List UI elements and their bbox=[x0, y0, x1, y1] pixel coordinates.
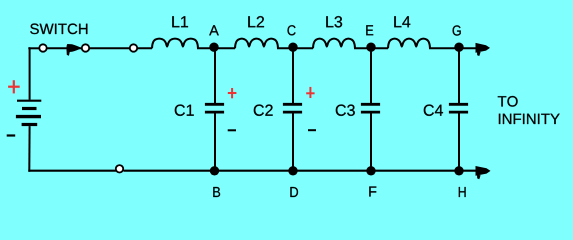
label L2 bbox=[248, 16, 264, 27]
inductor L4 bbox=[388, 39, 430, 49]
node G dot bbox=[454, 43, 463, 52]
capacitor C1 top plate bbox=[205, 103, 224, 106]
node D dot bbox=[288, 166, 297, 175]
node H dot bbox=[454, 166, 463, 175]
capacitor C1 bottom plate bbox=[205, 111, 224, 114]
node D label bbox=[290, 187, 298, 197]
switch S1 contact circle right bbox=[82, 44, 89, 51]
switch S1 contact circle outer bbox=[130, 44, 137, 51]
node B dot bbox=[210, 166, 219, 175]
label SWITCH bbox=[30, 24, 87, 35]
label C1 bbox=[175, 105, 194, 116]
wire L4 to output through node G bbox=[429, 47, 478, 49]
battery B1 plate long top bbox=[17, 100, 41, 102]
node A dot bbox=[209, 43, 218, 52]
capacitor C4 bottom wire bbox=[458, 113, 460, 170]
inductor L3 bbox=[313, 39, 355, 49]
switch S1 arrow bbox=[66, 44, 81, 52]
node B label bbox=[213, 187, 220, 197]
battery polarity plus bbox=[8, 80, 20, 93]
capacitor C2 top wire bbox=[292, 48, 294, 103]
arrow to infinity bottom tail bbox=[477, 175, 481, 179]
capacitor C4 top plate bbox=[449, 103, 468, 106]
wire L3 to L4 through node E bbox=[354, 47, 388, 49]
capacitor C2 polarity minus bbox=[308, 129, 316, 131]
wire battery positive lead bbox=[29, 48, 32, 99]
battery polarity minus bbox=[7, 134, 16, 136]
node G label bbox=[453, 25, 461, 35]
capacitor C3 bottom plate bbox=[361, 111, 380, 114]
capacitor C1 top wire bbox=[214, 48, 216, 103]
node F dot bbox=[366, 166, 375, 175]
wire battery negative lead bbox=[28, 126, 30, 172]
node H label bbox=[459, 187, 466, 197]
capacitor C2 bottom plate bbox=[283, 111, 302, 114]
wire switch to L1 bbox=[89, 47, 152, 49]
arrow to infinity top tail bbox=[477, 52, 481, 56]
inductor L2 bbox=[235, 39, 278, 49]
battery B1 plate short bottom bbox=[22, 123, 38, 126]
arrow to infinity top head bbox=[476, 43, 491, 53]
capacitor C3 top plate bbox=[361, 103, 380, 106]
battery B1 plate short upper bbox=[22, 107, 37, 110]
label C3 bbox=[336, 105, 355, 116]
node E dot bbox=[366, 43, 375, 52]
capacitor C3 bottom wire bbox=[370, 113, 372, 170]
label C2 bbox=[254, 105, 273, 116]
node A label bbox=[209, 25, 219, 35]
capacitor C3 top wire bbox=[370, 48, 372, 103]
capacitor C1 polarity plus bbox=[228, 88, 237, 98]
battery B1 plate long lower bbox=[16, 115, 41, 118]
wire L2 to L3 through node C bbox=[277, 47, 313, 49]
node C label bbox=[288, 25, 296, 35]
capacitor C1 bottom wire bbox=[214, 113, 216, 170]
label L1 bbox=[172, 16, 188, 27]
capacitor C2 top plate bbox=[283, 103, 302, 106]
wire bottom rail right bbox=[124, 170, 479, 172]
node F label bbox=[369, 187, 376, 197]
bottom rail contact circle bbox=[116, 165, 123, 172]
wire L1 to L2 through node A bbox=[197, 47, 235, 49]
label L4 bbox=[394, 16, 410, 27]
switch S1 contact circle left bbox=[39, 44, 46, 51]
capacitor C4 top wire bbox=[458, 48, 460, 103]
node C dot bbox=[288, 43, 297, 52]
capacitor C1 polarity minus bbox=[228, 129, 236, 131]
capacitor C2 polarity plus bbox=[306, 87, 314, 98]
capacitor C2 bottom wire bbox=[292, 113, 294, 170]
label L3 bbox=[326, 16, 342, 27]
node E label bbox=[366, 25, 373, 35]
wire top rail battery to first contact bbox=[28, 47, 40, 49]
inductor L1 bbox=[152, 39, 198, 49]
wire between switch contacts bbox=[46, 47, 82, 49]
wire bottom rail left bbox=[28, 170, 116, 172]
switch S1 arrow tail bbox=[67, 49, 71, 56]
arrow to infinity bottom head bbox=[476, 166, 491, 176]
capacitor C4 bottom plate bbox=[449, 111, 468, 114]
label C4 bbox=[424, 105, 443, 116]
label TO INFINITY bbox=[498, 96, 518, 107]
